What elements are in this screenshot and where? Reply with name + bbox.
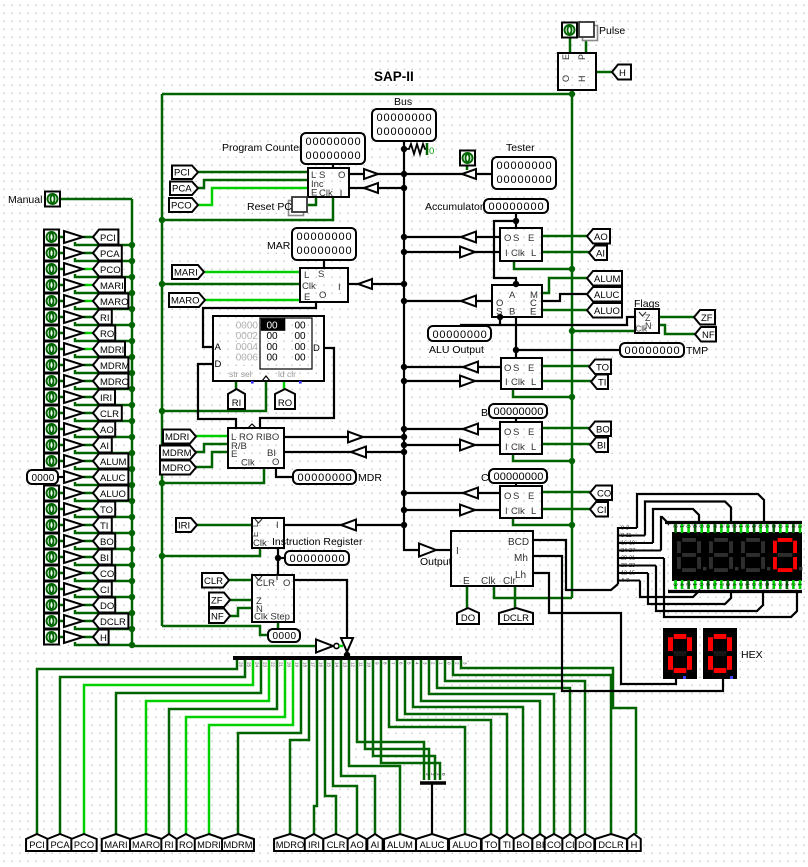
svg-text:2: 2: [685, 583, 691, 586]
svg-text:HEX: HEX: [741, 649, 763, 661]
svg-text:AO: AO: [100, 425, 114, 436]
svg-text:6: 6: [757, 583, 763, 586]
svg-text:C: C: [481, 472, 489, 484]
svg-text:MARO: MARO: [171, 296, 200, 307]
svg-text:AO: AO: [594, 232, 608, 243]
svg-text:0000: 0000: [32, 473, 55, 484]
button input CI: [44, 582, 59, 597]
tunnel CO bottom: [545, 834, 564, 851]
wire control MDRI to bottom tunnel: [209, 660, 293, 834]
probe IR value display: [285, 551, 349, 565]
tunnel MDRI bottom: [195, 834, 224, 851]
svg-text:L: L: [531, 377, 536, 388]
tunnel ZF: [694, 310, 715, 325]
buffer row DO: [64, 599, 83, 611]
button input TO: [44, 502, 59, 517]
svg-text:ALUM: ALUM: [387, 840, 413, 850]
button input PCI: [44, 230, 59, 245]
tunnel RO: [275, 389, 295, 409]
buffer row BI: [64, 551, 83, 563]
svg-text:0: 0: [704, 525, 710, 528]
svg-text:BO: BO: [516, 840, 529, 850]
button input RO: [44, 326, 59, 341]
wire control DO to bottom tunnel: [445, 660, 585, 834]
svg-text:MARO: MARO: [132, 840, 160, 850]
node RAM unconnected sel pin: [251, 381, 254, 384]
svg-text:H: H: [619, 68, 626, 79]
wire enable tap row AO: [75, 434, 132, 437]
wire enable tap row CLR: [75, 418, 132, 421]
wire display bottom pin bus bar: [668, 590, 802, 593]
svg-text:IRI: IRI: [178, 521, 190, 532]
wire CLR tunnel to sequencer: [229, 579, 252, 582]
tunnel PCO row: [93, 262, 122, 277]
svg-text:4: 4: [678, 583, 684, 586]
wire output Lh to hex display 1: [533, 573, 676, 684]
tunnel TO bottom: [482, 834, 501, 851]
wire button row AO: [59, 428, 64, 431]
tunnel TI bottom: [499, 834, 514, 851]
svg-text:E: E: [231, 449, 237, 460]
svg-text:6: 6: [691, 525, 697, 528]
tunnel RO bottom: [177, 834, 196, 851]
svg-text:E: E: [528, 233, 534, 244]
svg-text:2: 2: [737, 583, 743, 586]
svg-text:RO: RO: [179, 840, 193, 850]
wire clk to C register: [513, 518, 572, 525]
wire B S to display: [515, 418, 517, 422]
tunnel RO row: [93, 326, 115, 341]
display pin ticks top: [672, 524, 803, 533]
tunnel ALUO: [587, 303, 622, 318]
tunnel ZF: [209, 593, 230, 608]
probe step counter display 0000: [268, 629, 300, 642]
wire ALUC tunnel to ALU C: [542, 294, 587, 301]
svg-text:24-27: 24-27: [621, 548, 635, 554]
svg-text:00: 00: [295, 321, 307, 332]
svg-text:DCLR: DCLR: [503, 613, 529, 624]
wire IRI tunnel to IR L pin: [197, 524, 252, 527]
tunnel RI row: [93, 310, 112, 325]
buffer row MDRO: [64, 375, 83, 387]
wire accumulator S to display and ALU A: [515, 213, 517, 228]
svg-text:RO: RO: [278, 398, 292, 409]
node ALU A input junction: [513, 281, 519, 287]
buffer ALU to bus: [461, 296, 476, 307]
svg-text:7: 7: [770, 583, 776, 586]
svg-text:BCD: BCD: [508, 537, 529, 548]
tunnel TO row: [93, 502, 115, 517]
probe C display: [489, 469, 547, 483]
svg-text:BO: BO: [100, 537, 114, 548]
svg-text:AO: AO: [350, 840, 363, 850]
svg-text:O: O: [561, 75, 571, 82]
wire PC output to bus: [349, 173, 404, 175]
svg-text:14: 14: [335, 662, 340, 668]
svg-text:P: P: [577, 54, 587, 60]
wire display segment group 12-15: [618, 572, 648, 574]
tunnel TI: [591, 375, 608, 390]
buffer row CI: [64, 583, 83, 595]
wire display segment group 16-19: [618, 542, 653, 544]
svg-text:NF: NF: [211, 612, 224, 623]
svg-text:3: 3: [724, 583, 730, 586]
node bus junction y=429: [401, 426, 407, 432]
buffer sequencer to control bus bar: [341, 638, 353, 652]
svg-text:RO: RO: [100, 329, 114, 340]
svg-text:MDRI: MDRI: [100, 345, 124, 356]
wire enable tap row RO: [75, 338, 132, 341]
wire control TI to bottom tunnel: [405, 660, 507, 834]
svg-text:MARI: MARI: [100, 281, 124, 292]
buffer row BO: [64, 535, 83, 547]
svg-text:I: I: [505, 442, 508, 453]
svg-text:BI: BI: [597, 441, 606, 452]
wire enable tap row DCLR: [75, 626, 132, 629]
tunnel IRI row: [93, 390, 115, 405]
svg-text:ALUO: ALUO: [100, 489, 126, 500]
svg-text:00: 00: [295, 331, 307, 342]
tunnel DO bottom: [576, 834, 595, 851]
svg-text:20-23: 20-23: [621, 563, 635, 569]
wire MDRI tunnel to MDR L pin: [195, 435, 228, 438]
tunnel PCA: [170, 182, 198, 196]
svg-text:00000000: 00000000: [297, 231, 353, 243]
wire button row MDRI: [59, 348, 64, 351]
tunnel PCA row: [93, 246, 122, 261]
svg-text:IRI: IRI: [100, 393, 112, 404]
wire enable tap row MARI: [75, 290, 132, 293]
tunnel MDRO: [160, 461, 196, 475]
node ALU S junction: [497, 314, 503, 320]
wire enable tap row PCA: [75, 258, 132, 261]
svg-text:7: 7: [717, 583, 723, 586]
display pin ticks bottom: [672, 580, 803, 589]
svg-text:2: 2: [672, 525, 678, 528]
tunnel CI bottom: [562, 834, 577, 851]
svg-text:ALUM: ALUM: [594, 274, 620, 285]
svg-text:ALUO: ALUO: [452, 840, 477, 850]
wire AI tunnel to accumulator L: [542, 251, 589, 254]
svg-text:ALUC: ALUC: [420, 840, 445, 850]
wire enable tap row IRI: [75, 402, 132, 405]
svg-text:PCA: PCA: [100, 249, 120, 260]
wire button row ALUO: [59, 492, 64, 495]
tunnel DCLR row: [93, 614, 128, 629]
svg-text:SAP-II: SAP-II: [374, 69, 414, 84]
wire control H to bottom tunnel: [461, 660, 636, 834]
svg-text:E: E: [463, 576, 470, 587]
node bus junction y=437: [401, 434, 407, 440]
wire Reset PC button to PC: [308, 197, 316, 205]
node bus junction y=510: [401, 507, 407, 513]
wire control MARO to bottom tunnel: [146, 660, 269, 834]
buffer row CO: [64, 567, 83, 579]
svg-text:MDRI: MDRI: [165, 432, 189, 443]
svg-text:I: I: [505, 506, 508, 517]
svg-text:3: 3: [672, 583, 678, 586]
svg-text:I: I: [505, 377, 508, 388]
button input ALUO: [44, 486, 59, 501]
wire CI tunnel to C L: [542, 508, 590, 511]
wire flags ZF output: [659, 316, 694, 319]
svg-text:TI: TI: [100, 521, 108, 532]
svg-text:PCA: PCA: [50, 840, 70, 850]
buffer B to bus: [463, 424, 478, 435]
svg-text:TO: TO: [596, 363, 609, 374]
wire button row RI: [59, 316, 64, 319]
svg-text:MDRO: MDRO: [100, 377, 129, 388]
wire control PCO to bottom tunnel: [84, 660, 253, 834]
svg-text:7: 7: [783, 525, 789, 528]
svg-text:B: B: [481, 407, 488, 419]
node splitter bar input junction: [344, 652, 350, 658]
wire clock right trunk: [571, 94, 574, 598]
buffer bus to C: [460, 505, 475, 516]
wire enable tap row PCI: [75, 242, 132, 245]
tunnel ALUM row: [93, 454, 128, 469]
register MDR: [228, 428, 284, 468]
svg-text:AI: AI: [100, 441, 109, 452]
svg-text:00000000: 00000000: [497, 160, 553, 172]
svg-text:Accumulator: Accumulator: [425, 201, 484, 213]
wire MDRO tunnel to MDR E pin: [195, 452, 228, 467]
buffer bus to accumulator: [460, 247, 475, 258]
tunnel BI: [590, 438, 608, 453]
buffer row RI: [64, 311, 83, 323]
svg-text:16-19: 16-19: [621, 541, 635, 547]
tunnel RI bottom: [161, 834, 176, 851]
svg-text:00: 00: [295, 352, 307, 363]
wire ALUM tunnel to ALU M: [542, 278, 587, 293]
svg-text:S: S: [513, 233, 519, 244]
wire output Clr to DCLR tunnel: [514, 586, 517, 608]
svg-text:TO: TO: [100, 505, 113, 516]
tunnel IRI bottom: [305, 834, 324, 851]
tunnel ALUO row: [93, 486, 128, 501]
wire pulse block O output: [571, 89, 574, 94]
button Reset PC: [289, 201, 304, 216]
wire display segment group 20-23: [618, 565, 656, 567]
svg-text:O: O: [319, 290, 326, 301]
svg-text:RIBO: RIBO: [256, 432, 279, 443]
svg-text:26: 26: [239, 662, 244, 668]
svg-text:4-7: 4-7: [621, 578, 629, 584]
button input CO: [44, 566, 59, 581]
wire TO tunnel to TMP E: [542, 365, 589, 368]
svg-text:00: 00: [267, 331, 279, 342]
svg-text:Clk: Clk: [241, 458, 255, 469]
wire clk to MDR: [162, 468, 264, 483]
svg-text:Clk: Clk: [511, 248, 525, 259]
wire AO tunnel to accumulator E: [542, 235, 587, 238]
probe PC value display: [301, 133, 365, 164]
svg-text:3: 3: [796, 525, 802, 528]
svg-text:19: 19: [295, 662, 300, 668]
svg-text:Clr: Clr: [503, 576, 516, 587]
splitter control word bus bar: [233, 656, 462, 660]
svg-text:I: I: [338, 282, 341, 293]
svg-text:E: E: [251, 532, 260, 537]
svg-text:5: 5: [711, 583, 717, 586]
svg-text:Clk: Clk: [253, 538, 267, 549]
svg-text:H: H: [631, 840, 638, 850]
svg-text:3: 3: [724, 525, 730, 528]
wire display segment group 4-7: [618, 580, 640, 582]
button input AO: [44, 422, 59, 437]
wire enable tap row AI: [75, 450, 132, 453]
wire button row MARO: [59, 300, 64, 303]
svg-text:MARI: MARI: [174, 268, 198, 279]
probe MDR value display: [293, 470, 356, 484]
register Flags: [635, 309, 659, 333]
tunnel DCLR: [499, 608, 533, 624]
svg-text:0: 0: [429, 146, 434, 157]
probe Tester value display: [492, 157, 556, 189]
wire clk to Instruction Register: [162, 548, 260, 556]
wire enable tap row CO: [75, 578, 132, 581]
wire enable tap row TO: [75, 514, 132, 517]
wire button row ALUC: [58, 476, 64, 478]
svg-text:Output: Output: [420, 556, 452, 568]
svg-text:MDRO: MDRO: [276, 840, 304, 850]
tunnel MARI bottom: [102, 834, 131, 851]
wire button row BI: [59, 556, 64, 559]
tunnel AO row: [93, 422, 115, 437]
svg-text:MDRM: MDRM: [100, 361, 130, 372]
tunnel CO: [590, 486, 612, 501]
buffer row MDRM: [64, 359, 83, 371]
svg-text:Mh: Mh: [514, 553, 528, 564]
svg-text:ALUC: ALUC: [594, 290, 619, 301]
svg-text:2: 2: [789, 583, 795, 586]
tunnel ALUM bottom: [384, 834, 416, 851]
node accumulator S junction: [513, 218, 519, 224]
svg-text:00000000: 00000000: [377, 112, 433, 124]
wire bus to MAR input: [348, 283, 404, 285]
wire clock left trunk: [161, 94, 164, 626]
wire button row CLR: [59, 412, 64, 415]
svg-text:D: D: [313, 343, 320, 354]
svg-text:0: 0: [776, 525, 782, 528]
svg-text:00000000: 00000000: [377, 126, 433, 138]
tunnel CLR: [202, 573, 229, 588]
svg-text:22: 22: [271, 662, 276, 668]
buffer C to bus: [463, 488, 478, 499]
wire control RO to bottom tunnel: [186, 660, 285, 834]
svg-text:7: 7: [711, 525, 717, 528]
svg-text:25: 25: [247, 662, 252, 668]
tunnel CO row: [93, 566, 115, 581]
wire bus to output input: [436, 549, 451, 551]
wire control TO to bottom tunnel: [397, 660, 491, 834]
wire pulse block H output to tunnel: [596, 71, 612, 74]
node bus junction y=452: [401, 449, 407, 455]
tunnel PCI row: [93, 230, 118, 245]
svg-text:CLR: CLR: [204, 576, 223, 587]
svg-text:O: O: [283, 578, 290, 589]
svg-text:O: O: [504, 427, 511, 438]
svg-text:Manual: Manual: [8, 194, 42, 206]
resistor pull-down on bus: [404, 144, 427, 154]
svg-text:S: S: [513, 363, 519, 374]
buffer row MARI: [64, 279, 83, 291]
node bus junction y=284: [401, 281, 407, 287]
wire NOT output to buffer enable: [339, 645, 343, 648]
buffer TMP to bus: [463, 362, 478, 373]
svg-text:E: E: [528, 363, 534, 374]
svg-text:5: 5: [770, 525, 776, 528]
wire button row BO: [59, 540, 64, 543]
svg-text:5: 5: [763, 583, 769, 586]
svg-text:L: L: [531, 248, 536, 259]
svg-text:6: 6: [704, 583, 710, 586]
tunnel TI row: [93, 518, 112, 533]
tunnel NF: [695, 327, 716, 342]
tunnel CI row: [93, 582, 112, 597]
wire ALU S output to display and flags: [461, 317, 500, 327]
tunnel MDRI: [163, 430, 196, 444]
buffer bus to MAR input: [358, 279, 372, 289]
wire control CI to bottom tunnel: [437, 660, 570, 834]
svg-text:DCLR: DCLR: [100, 617, 126, 628]
svg-text:0006: 0006: [236, 352, 259, 363]
svg-text:MDRM: MDRM: [162, 448, 192, 459]
wire MDR O output to display: [276, 468, 293, 477]
node bus junction y=174: [401, 171, 407, 177]
svg-text:1: 1: [737, 525, 743, 528]
buffer row PCO: [64, 263, 83, 275]
buffer bus to PC input: [364, 183, 378, 193]
svg-text:00000000: 00000000: [494, 471, 544, 483]
wire display top pin bus bar: [665, 521, 802, 524]
wire button row DCLR: [59, 620, 64, 623]
wire enable tap row MDRO: [75, 386, 132, 389]
svg-text:1: 1: [796, 583, 802, 586]
wire main bus vertical: [404, 141, 418, 550]
svg-text:H: H: [577, 76, 587, 83]
svg-text:16: 16: [319, 662, 324, 668]
wire button row IRI: [59, 396, 64, 399]
tunnel PCA bottom: [47, 834, 72, 851]
wire TMP output to bus: [404, 366, 501, 368]
wire C S to display: [515, 483, 517, 486]
svg-text:4: 4: [731, 583, 737, 586]
wire enable tap row CI: [75, 594, 132, 597]
tunnel BO: [589, 422, 611, 437]
svg-text:Clk: Clk: [481, 576, 496, 587]
wire control IRI to bottom tunnel: [314, 660, 317, 834]
svg-text:CI: CI: [597, 505, 607, 516]
button input DO: [44, 598, 59, 613]
wire control BI to bottom tunnel: [421, 660, 540, 834]
tunnel MARO: [169, 293, 205, 307]
wire NF tunnel to sequencer N: [230, 608, 252, 616]
svg-text:ALUO: ALUO: [594, 306, 620, 317]
wire RO tunnel to RAM ld pin: [283, 381, 286, 390]
tunnel MARI: [172, 265, 204, 279]
svg-text:0004: 0004: [236, 342, 259, 353]
wire control PCI to bottom tunnel: [37, 660, 237, 834]
wire control AI to bottom tunnel: [341, 660, 375, 834]
wire clk to Flags: [572, 330, 635, 333]
wire bus to TMP input: [404, 380, 501, 382]
wire ALU B input from TMP: [515, 317, 517, 358]
button Tester enable: [460, 151, 475, 166]
svg-text:ALUC: ALUC: [100, 473, 125, 484]
tunnel PCI: [172, 166, 198, 180]
wire MDRM tunnel to MDR R/B pin: [195, 444, 228, 452]
